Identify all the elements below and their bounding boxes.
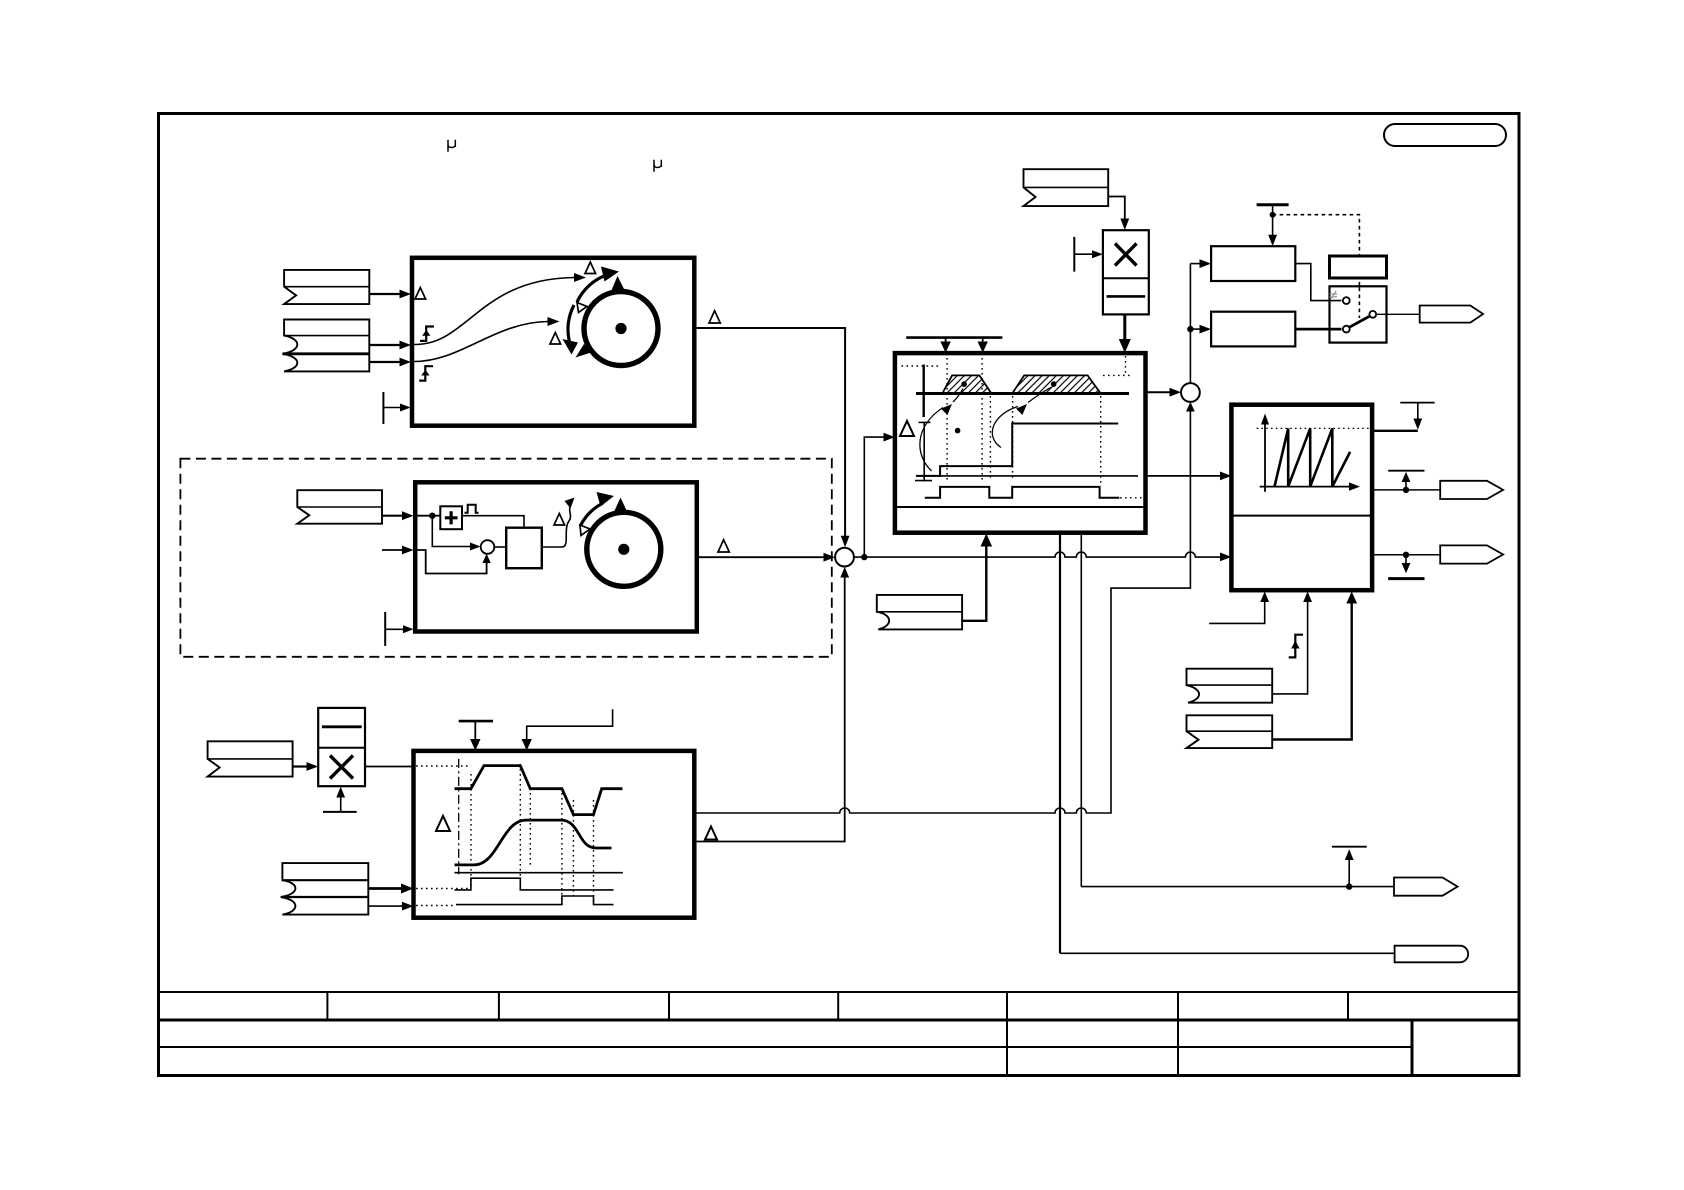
lone dot block 4 — [955, 428, 961, 434]
output connector pentagon top right — [1420, 306, 1483, 323]
parameter T-bar below multiplier 2 — [323, 811, 357, 813]
step trace block 4 — [916, 424, 1118, 476]
connector 8: double banner feeding block 3 — [281, 863, 369, 915]
wire: block 4 output 2 to block 5 — [1146, 475, 1225, 477]
dotted guides block 3 — [416, 764, 594, 906]
switch contact b — [1343, 326, 1350, 333]
curve: input 1 to upper arc — [414, 278, 574, 345]
step trace 2 block 3 — [456, 896, 614, 905]
parameter T-bar input of block 1 — [382, 392, 384, 424]
wire: input 1 inside block 2 — [415, 515, 440, 517]
thin zero line block 3 — [455, 872, 623, 874]
wire: connector 1 to block 1 — [369, 293, 403, 295]
connector 1: setpoint input banner — [284, 270, 369, 304]
multiplier/divider box 2 — [318, 708, 365, 786]
wire: block 5 output 3 — [1372, 554, 1440, 556]
stadium: diagram number lozenge top right — [1384, 124, 1506, 146]
switch box — [1330, 286, 1387, 342]
bare L wire above block 3 — [527, 709, 613, 742]
rect A: ramp time selector upper — [1211, 246, 1295, 281]
label delta block 2 output — [718, 540, 729, 552]
wire: block 4 bottom output A — [1059, 533, 1061, 954]
block 5: modulator block — [1231, 405, 1372, 591]
switch contact a — [1343, 297, 1350, 304]
label delta block 1 output — [709, 311, 720, 323]
label delta at block 1 input 1 — [415, 288, 426, 300]
wire: connector 3 to block 2 — [382, 515, 406, 517]
pulse icon beside plus box — [465, 505, 479, 513]
parameter T-bar above selector — [1257, 203, 1289, 206]
connector 9: banner feeding block 4 bottom — [877, 595, 962, 630]
spike arrow on circle top (block 2) — [614, 498, 628, 514]
block 1: motor model block — [412, 258, 694, 426]
parameter bar above block 4 — [906, 336, 1002, 339]
wire: connector 6 to block 5 bottom 3 — [1272, 600, 1352, 740]
title block: column separators rows 2-3 — [1007, 1020, 1178, 1076]
wire: input 2 path inside block 2 — [415, 550, 486, 574]
wire: switch output — [1376, 313, 1420, 315]
upper axis block 4 — [923, 365, 925, 418]
switch lever — [1350, 316, 1370, 327]
label mu 2 — [654, 160, 661, 172]
wire: block 3 lower output to sum 1 — [694, 575, 844, 842]
sum circle 2 — [1181, 383, 1200, 402]
title block: column separators row 1 — [327, 992, 1348, 1020]
motor 1 circle — [584, 292, 658, 366]
wiggle output of square box — [542, 506, 571, 548]
switch pole — [1369, 311, 1376, 318]
wire: connector 9 up into block 4 — [962, 543, 986, 621]
curve annotation right (block 4) — [992, 388, 1050, 448]
wire: bottom output A to stadium connector — [1060, 952, 1395, 954]
lower axis block 4 — [923, 422, 925, 481]
wire: bare feed to block 5 bottom 1 — [1209, 599, 1265, 623]
wire: branch down to small sum — [432, 516, 473, 547]
wire: sum 2 output up to selector rects — [1189, 264, 1191, 384]
connector 4: banner feeding multiplier — [1024, 169, 1109, 206]
title block: thick row line 2 — [157, 1019, 1520, 1022]
wire: connector 7 to multiplier 2 — [293, 765, 311, 767]
stadium output connector — [1395, 946, 1469, 963]
wire: block 3 signal up into sum 2 — [694, 409, 1190, 813]
connector 6: banner binector input — [1187, 715, 1273, 748]
output pentagon 3 — [1440, 545, 1503, 563]
multiplier/divider box 1 — [1103, 230, 1149, 314]
dashed control wire to switch — [1273, 215, 1360, 318]
wire: block 1 output to sum 1 — [694, 328, 845, 539]
wire: to rect B — [1190, 328, 1203, 330]
rect B: ramp time selector lower — [1211, 312, 1295, 347]
step icon near block 5 — [1289, 635, 1303, 658]
wire: to rect A — [1190, 263, 1203, 265]
rotation arc upper (block 1) — [577, 275, 608, 303]
title block: row line 1 — [157, 991, 1520, 993]
label delta upper arc — [585, 262, 596, 274]
wire: multiplier 1 down to block 4 — [1123, 314, 1126, 344]
sawtooth y axis — [1264, 420, 1266, 492]
wire: connector 8 row 2 to block 3 — [368, 887, 405, 890]
sawtooth trace — [1275, 428, 1351, 486]
wire: down into rect A top — [1272, 215, 1274, 239]
gray not-equal mark — [1330, 291, 1338, 299]
wire: block 4 output 1 to sum 2 — [1146, 391, 1174, 393]
rotation arc (block 2) — [580, 503, 603, 527]
hatched trapezoid 2 — [1012, 375, 1100, 393]
small sum circle in block 2 — [481, 540, 495, 554]
block 2: droop / second motor block — [415, 482, 697, 631]
label delta block 4 — [900, 421, 914, 436]
curve: input 2 to lower arc — [414, 322, 548, 362]
square box in block 2 — [506, 528, 542, 569]
dashed option box around block 2 — [180, 459, 831, 657]
wire: branch up into block 4 — [864, 437, 887, 557]
wire: connector 5 to block 5 bottom 2 — [1272, 599, 1307, 694]
dash-dot axis block 3 — [458, 759, 460, 874]
motor 2 circle — [587, 512, 661, 586]
spike arrow on circle lower-left (block 1) — [576, 344, 593, 358]
sawtooth x axis — [1260, 486, 1352, 488]
label delta block 3 — [436, 816, 450, 831]
step icon at block 1 input 2 — [420, 327, 434, 341]
plus box in block 2 — [440, 506, 462, 529]
dashed control wire inside switch box — [1358, 288, 1360, 319]
wire: connector 8 row 3 to block 3 — [368, 905, 406, 907]
output pentagon bottom — [1394, 878, 1458, 896]
wire: bare input 2 of block 2 — [382, 549, 406, 551]
rotation arc lower (block 1) — [568, 305, 574, 342]
wire: rect A to switch contact a — [1295, 264, 1341, 301]
pulse trace block 4 — [925, 487, 1120, 498]
parameter T-bar of multiplier 1 — [1073, 237, 1075, 272]
label delta lower arc — [550, 333, 561, 345]
sum circle 1 — [835, 548, 854, 567]
step icon at block 1 input 3 — [419, 366, 433, 380]
dotted guides block 4 — [902, 356, 1143, 498]
wire: connector 4 to multiplier 1 — [1108, 197, 1125, 223]
wire: bottom output B to pentagon — [1081, 886, 1394, 888]
title block: corner box — [1412, 1020, 1519, 1076]
parameter T-bar above block 3 — [459, 720, 493, 723]
label delta block 3 output upper — [705, 827, 717, 840]
wire: sum to square box — [494, 546, 506, 548]
step trace 1 block 3 — [455, 878, 614, 890]
upper trace block 3 — [455, 766, 623, 815]
connector 5: banner page reference — [1187, 669, 1273, 703]
hatched trapezoid 1 — [942, 375, 991, 393]
wire: plus box to square box — [462, 516, 524, 528]
spike arrow on circle top (block 1) — [611, 276, 625, 292]
title block: row line 3 — [157, 1046, 1412, 1048]
block 3: ramp function generator — [414, 751, 695, 918]
rect C: small box above switch — [1330, 256, 1387, 278]
label mu 1 — [448, 140, 455, 152]
label delta wiggle — [554, 514, 565, 526]
wire: block 5 top output to r-display — [1372, 430, 1418, 432]
wire: block 2 output to sum 1 — [697, 556, 827, 558]
middle S-ramp trace block 3 — [455, 820, 612, 865]
curve annotation left (block 4) — [920, 389, 963, 472]
connector 3: input banner of block 2 — [297, 490, 382, 524]
frame: outer border — [159, 114, 1520, 1076]
wire: sum 1 output with branch — [854, 552, 1224, 557]
dotted top level — [1257, 427, 1371, 429]
wire: connector 2 row 3 to block 1 — [369, 361, 403, 363]
wire: multiplier 2 to block 3 — [365, 766, 414, 768]
wire: connector 2 row 2 to block 1 — [369, 344, 403, 346]
wire: rect B to switch contact b — [1295, 328, 1341, 331]
parameter T-bar input of block 2 — [384, 612, 386, 646]
wire: block 5 output 2 — [1372, 489, 1440, 491]
output pentagon 2 — [1440, 481, 1503, 499]
connector 7: banner feeding multiplier 2 — [208, 741, 293, 776]
wire: block 4 bottom output B — [1080, 533, 1082, 887]
connector 2: double source banner — [283, 320, 370, 372]
block 4: jerk limiting block — [895, 353, 1146, 533]
